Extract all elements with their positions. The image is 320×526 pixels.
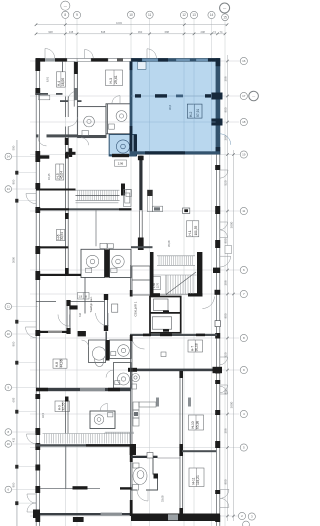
blue room partition line with stubs [131,94,213,97]
svg-text:298: 298 [201,30,206,34]
svg-text:308: 308 [224,76,228,81]
grid lines over blue [132,62,215,152]
svg-text:119,21: 119,21 [196,475,200,485]
door arc bathroom1 bottom [81,138,89,146]
svg-text:1003: 1003 [116,21,122,25]
stair 1 hatch [76,190,120,200]
label box H-9 [55,401,70,412]
wall y335 right [130,334,217,337]
label H-6 [56,230,64,241]
stair 2 enclosure walls [150,252,202,297]
landing edge below stair1 [76,202,119,204]
corridor wall y209 [36,208,132,210]
bathroom H-9 [90,411,115,429]
label H-4 [57,72,66,87]
toilet C [115,373,130,385]
toilet [111,255,124,272]
door arc room H-7 [132,336,145,349]
closet boxes left of stair [132,266,150,295]
right dimension numbers rotated [224,76,234,484]
door arc bathroom2 [112,96,120,104]
bathrooms mid-left block [89,340,132,388]
wall segment below notch [112,154,129,157]
door arc bathroom H-11 [137,490,148,501]
small box right of vestibule [112,304,118,312]
vestibule door arcs [58,313,109,326]
tambur label box [78,293,90,300]
bathroom1 bottom wall thick [78,135,106,138]
right wall door arcs [220,134,231,508]
svg-text:520: 520 [224,180,228,185]
stair 2 flight top hatch [157,256,195,265]
column stubs y153 [40,148,76,159]
svg-text:3000: 3000 [11,256,15,263]
svg-text:30,18: 30,18 [195,343,199,351]
svg-text:33,08: 33,08 [161,495,165,502]
bathroom 2 box [106,104,131,134]
wall y451 between H-10 H-11 [182,450,217,452]
left wall door arcs [26,194,37,513]
elevator shafts [150,297,181,333]
svg-text:13: 13 [192,13,196,17]
bench rect room H-4 [39,95,50,100]
wall y488 [40,486,132,489]
label H-3 [106,70,123,86]
right dimension ticks [226,60,235,518]
svg-text:908: 908 [48,30,53,34]
svg-text:2,96: 2,96 [118,162,124,166]
svg-text:14: 14 [210,13,214,17]
label box H-8 [53,359,67,368]
corridor wall x131 lower [130,265,133,297]
svg-text:32,5: 32,5 [41,412,45,418]
svg-text:16: 16 [242,59,246,63]
door arc wall x66.5 [68,117,77,126]
svg-text:308: 308 [224,428,228,433]
svg-text:9: 9 [76,13,78,17]
major wall y370 [128,367,222,373]
kitchen counter H-1 [147,190,162,212]
svg-text:8: 8 [64,13,66,17]
tambur stub [69,305,77,309]
blue room bottom wall [109,151,220,156]
exterior top wall [36,58,220,61]
svg-text:10: 10 [7,332,11,336]
toilet [86,255,99,272]
right dimension lines [228,55,234,521]
svg-text:138: 138 [69,30,74,34]
svg-text:411: 411 [11,437,15,442]
svg-text:11: 11 [148,13,152,17]
wall x66 lower [65,447,67,489]
wall x106 connector [105,332,107,341]
tambur left wall [84,277,86,314]
svg-text:Н-11: Н-11 [192,477,196,484]
svg-text:590: 590 [11,145,15,150]
svg-text:16,06: 16,06 [61,78,65,86]
blue bathroom notch [109,134,137,157]
grid axis lines vertical [17,19,225,526]
svg-text:900: 900 [224,107,228,112]
toilet bathroom1 [82,116,94,136]
shaft wall x75 hatched [74,62,77,107]
blue apt bathroom walls [109,135,136,156]
svg-text:СЕКЦИЯ 1: СЕКЦИЯ 1 [134,301,138,316]
vent box [147,453,153,459]
svg-text:18: 18 [242,120,246,124]
stair 2 lower flight hatch + diagonal [154,272,197,295]
bathroom door arcs mid-left [82,340,114,378]
kitchen unit column [133,402,156,426]
exterior right wall [211,58,223,526]
svg-text:900: 900 [11,341,15,346]
svg-text:900: 900 [224,313,228,318]
bathroom H-11 walls [131,458,158,490]
svg-text:Тамбур жил.: Тамбур жил. [89,296,93,312]
svg-text:2,70: 2,70 [156,282,160,288]
corridor wall y189 [36,189,76,191]
top dimension ticks [35,23,229,35]
small tick box [161,352,166,357]
svg-text:11: 11 [242,209,245,213]
bottom wall right part [131,514,220,522]
column mid room [183,208,190,213]
svg-text:308: 308 [224,280,228,285]
stair 3 hatch [43,432,135,443]
svg-text:65,98: 65,98 [196,421,200,429]
toilet bathroom2 [109,111,127,130]
svg-text:318: 318 [79,312,82,317]
wall y445 below stair3 [36,444,132,446]
svg-text:97,91: 97,91 [196,109,200,117]
right wall blue part [216,58,221,154]
top wall blue section [131,58,220,61]
svg-text:Н-10: Н-10 [191,421,195,428]
svg-text:13: 13 [7,187,11,191]
top dimension numbers [48,21,223,34]
separation wall y389 left [36,388,131,391]
svg-text:101,55: 101,55 [194,226,198,236]
toilet fixtures along corridor wall [132,374,140,390]
svg-text:360: 360 [138,30,143,34]
svg-text:688: 688 [165,30,170,34]
bathroom 1 box [78,107,106,138]
svg-text:390: 390 [224,135,228,140]
left dimension tick blocks [15,171,18,505]
toilet A [92,347,105,367]
label box H-1 [187,221,199,237]
svg-text:695: 695 [11,397,15,402]
svg-text:900: 900 [224,238,228,243]
svg-text:Н-2: Н-2 [189,112,193,117]
svg-text:30,94: 30,94 [60,232,64,240]
svg-text:16: 16 [7,442,11,446]
wall vertical x66.5 [65,153,69,275]
svg-text:3000: 3000 [230,401,234,408]
label box H-10 [189,415,204,430]
svg-text:12: 12 [182,13,186,17]
grid axis lines horizontal right wing [30,61,240,516]
divider wall black [105,249,110,277]
label box below notch [115,160,127,166]
closet labels [152,277,161,290]
wall x181 lower run [179,371,183,516]
wall y332 left [36,331,70,333]
left dimension numbers rotated [11,145,15,487]
svg-text:Н-1: Н-1 [188,230,192,235]
exterior left wall [35,58,40,526]
svg-text:Н-3: Н-3 [109,78,113,84]
wall horizontal y101 with door arc [60,91,82,102]
vestibule walls [36,294,108,334]
wall y247 [131,246,153,248]
svg-text:44,96: 44,96 [59,359,63,367]
wall vertical x66.5 upper [65,97,69,153]
toilet B [111,345,130,357]
svg-text:45,04: 45,04 [60,171,64,179]
svg-text:520: 520 [224,352,228,357]
right axis circles column [238,57,258,526]
window box on right wall [215,321,220,327]
label box H-11 [189,468,204,487]
top dimension lines [36,25,227,34]
wall y275 left [36,274,81,276]
label box H-2 [187,104,202,118]
label H-5 [56,164,64,180]
bathrooms mid top walls [81,249,131,277]
vent box on balcony [225,246,232,254]
svg-text:900: 900 [11,482,15,487]
vent boxes above bathrooms [100,243,107,248]
wall y456 bathroom H-11 [131,456,158,458]
wall vertical x62 room H-4 [62,62,64,86]
shower circle blue [116,140,129,153]
bathtub [133,463,148,490]
svg-text:10: 10 [129,13,133,17]
svg-text:15: 15 [223,15,227,19]
svg-text:900: 900 [224,479,228,484]
left dimension line [16,140,18,526]
wall x96 room divider [95,210,97,246]
svg-text:30,6: 30,6 [168,104,172,110]
svg-text:900: 900 [11,179,15,184]
svg-text:17: 17 [242,94,246,98]
svg-text:14: 14 [7,155,11,159]
left axis circles column [5,153,12,493]
door arc elevator hall [202,297,214,309]
svg-text:19: 19 [242,153,246,157]
grid axis lines horizontal left wing [12,157,38,504]
wall x131 lower run [130,335,136,516]
blue room left wall [130,62,133,155]
vent box blue top-left [138,62,147,70]
highlighted apartment N-2 blue fill [109,58,220,156]
svg-text:11: 11 [7,305,10,309]
partition stubs H-7 room [156,398,159,407]
wall horizontal y94 [36,93,63,95]
top axis circles row [61,1,230,21]
wall x123 stair right [121,184,125,196]
H-1 left wall x141 [138,156,144,250]
svg-text:6,91: 6,91 [46,76,50,82]
svg-text:—: — [252,94,255,98]
door arcs above top wall [45,49,156,59]
wall x66.5 in H-9 [65,397,69,434]
svg-text:848: 848 [101,30,106,34]
svg-text:32,55: 32,55 [62,402,66,410]
bottom wall left part [33,510,131,523]
svg-text:29,41: 29,41 [114,75,118,84]
label box H-7 [188,340,203,352]
wall y247 left [36,246,69,248]
svg-text:16,25: 16,25 [47,173,51,180]
svg-text:1,9: 1,9 [79,295,83,298]
svg-text:3000: 3000 [230,221,234,228]
washing machine left room [124,190,132,207]
svg-text:35,08: 35,08 [167,240,171,247]
apartment wall y135 [36,134,78,146]
